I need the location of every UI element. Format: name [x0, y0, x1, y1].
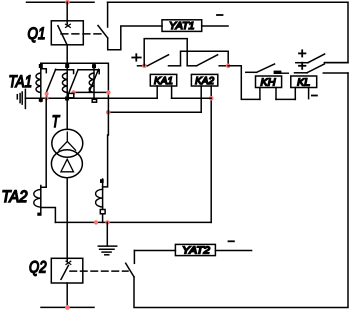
node KA2 junction: [209, 96, 214, 101]
trip coil YAT1: [162, 20, 202, 32]
node stub bottom: [45, 96, 49, 100]
svg-text:KA2: KA2: [195, 75, 214, 87]
current transformer TA2 phase C: [96, 179, 106, 222]
wire rail B KA1 output: [181, 51, 229, 66]
svg-text:YAT1: YAT1: [169, 20, 195, 32]
node TA2 bus junction 2: [105, 220, 109, 224]
contact Q2 auxiliary: [126, 251, 135, 277]
wire KA output to KH coil: [228, 66, 260, 100]
wire TA1 secondary link 1: [55, 70, 73, 74]
relay coil KA2: [191, 74, 217, 222]
node minus label KL coil: [312, 95, 317, 97]
relay coil KL: [291, 76, 317, 99]
relay coil KA1: [150, 74, 176, 98]
wire top bus right segment with right edge drop: [108, 2, 349, 62]
wire KH to KL coil: [276, 98, 295, 100]
wire Q1 aux to YAT1: [108, 26, 162, 50]
svg-text:TA1: TA1: [9, 73, 33, 91]
contact KA2: [187, 55, 228, 66]
ground TA1: [17, 89, 25, 108]
current transformer TA1 phase C: [89, 63, 99, 102]
wire main line Q1 to transformer: [66, 45, 68, 130]
wire YAT2 to minus: [215, 250, 251, 252]
node top bus junction: [65, 0, 70, 5]
wire TA1 secondary top rail: [41, 63, 109, 187]
wire TA2 left feed: [41, 98, 46, 187]
wire TA1 secondary bottom rail: [25, 97, 157, 99]
wire plus feed: [138, 65, 148, 67]
wire mechanical link Q1 (dashed): [61, 33, 104, 35]
svg-text:KL: KL: [297, 76, 310, 88]
transformer T winding 2 (delta): [51, 150, 82, 178]
wire bottom bus: [41, 306, 94, 308]
wire mechanical link Q2 (dashed): [70, 270, 128, 272]
node KA output junction: [226, 64, 231, 69]
node slash link right: [106, 90, 110, 94]
relay coil KH: [256, 76, 282, 99]
wire KA2 coil to TA1: [108, 111, 201, 113]
transformer T winding 1 (star): [52, 129, 83, 157]
breaker Q1: [51, 21, 83, 45]
svg-text:KA1: KA1: [154, 75, 173, 87]
wire transformer to TA2: [66, 178, 68, 261]
ground TA2: [98, 222, 116, 254]
svg-text:Q2: Q2: [29, 257, 47, 276]
trip coil YAT2: [175, 244, 215, 256]
current transformer TA1 phase A: [36, 63, 56, 102]
wire Q2 to bottom bus: [66, 283, 68, 307]
node KA1 plus junction: [142, 64, 147, 69]
node plus label KL contact 2: [299, 63, 305, 69]
wire TA1 link stub phase A: [46, 94, 48, 99]
current transformer TA2 phase A: [34, 186, 41, 216]
current transformer TA1 phase B: [62, 64, 78, 101]
wire rail A to KA2 contact: [144, 39, 187, 66]
svg-text:T: T: [52, 112, 61, 131]
wire bottom loop to KL contact: [134, 73, 348, 308]
node slash link left: [71, 90, 75, 94]
wire TA1 secondary hook phase A: [41, 69, 46, 73]
node minus label circuit 1: [217, 14, 223, 16]
svg-text:KH: KH: [261, 76, 276, 88]
node bottom bus junction: [65, 305, 70, 310]
wire TA2 secondary bus: [55, 221, 211, 223]
svg-text:YAT2: YAT2: [182, 244, 210, 256]
contact KH with flag: [246, 64, 288, 74]
node minus label circuit 2: [229, 240, 234, 242]
node TA1 wire junction: [106, 110, 111, 115]
wire Q2 aux to YAT2: [134, 250, 175, 252]
contact KA1: [148, 55, 181, 66]
node plus label KA circuit: [132, 54, 140, 61]
wire KA1 output to KA2: [172, 97, 212, 99]
node TA2 bus junction 1: [94, 220, 98, 224]
svg-text:TA2: TA2: [2, 188, 28, 206]
wire YAT1 to minus: [202, 25, 228, 27]
wire TA1 slash-bottom link: [74, 91, 109, 93]
svg-text:Q1: Q1: [28, 24, 46, 43]
contact KL 1 (to YAT1 circuit): [296, 54, 348, 63]
node plus label KL contact 1: [299, 50, 305, 56]
node stub top: [45, 92, 49, 96]
wire TA2 phase A to bus: [41, 208, 56, 223]
wire TA1 secondary link 2: [78, 70, 99, 74]
wire main feeder into Q1: [66, 2, 68, 24]
breaker Q2: [51, 258, 83, 283]
wire top bus left segment: [27, 1, 95, 3]
contact KL 2 (to YAT2 circuit): [295, 64, 349, 73]
contact Q1 auxiliary: [98, 2, 108, 38]
